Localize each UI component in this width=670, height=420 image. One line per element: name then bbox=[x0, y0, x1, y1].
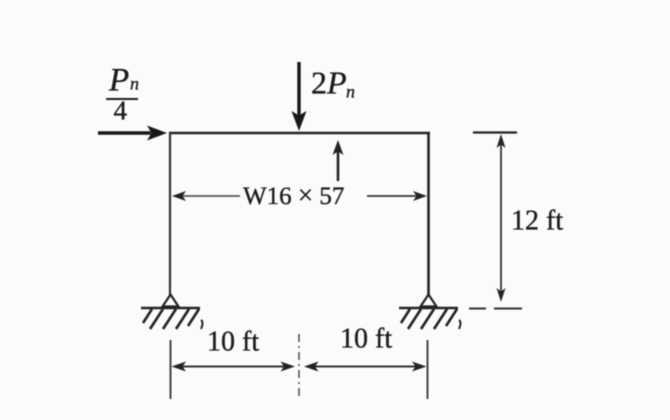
svg-text:2P: 2P bbox=[311, 65, 347, 101]
label Pn/4 (fraction) bbox=[106, 63, 139, 126]
svg-text:10 ft: 10 ft bbox=[340, 324, 392, 355]
ink mark bbox=[201, 320, 203, 329]
dimension label W16 x 57 with leader arrows bbox=[172, 180, 427, 210]
svg-text:n: n bbox=[130, 74, 139, 94]
arrowhead up bbox=[497, 134, 506, 148]
dimension 10 ft (left bay) bbox=[172, 327, 296, 372]
right column bbox=[427, 132, 430, 296]
arrowhead down bbox=[497, 288, 506, 302]
left pin support bbox=[141, 295, 203, 330]
force arrow Pn/4 (horizontal load at top left) bbox=[98, 126, 167, 141]
svg-text:W16 × 57: W16 × 57 bbox=[243, 180, 344, 210]
svg-text:12 ft: 12 ft bbox=[511, 206, 563, 237]
dimension 12 ft (right side) bbox=[469, 133, 563, 309]
extension line left (below left support) bbox=[170, 340, 172, 399]
svg-text:10 ft: 10 ft bbox=[207, 327, 259, 358]
svg-text:n: n bbox=[346, 82, 355, 102]
svg-text:P: P bbox=[108, 63, 129, 99]
ink mark bbox=[459, 320, 461, 329]
extension line center (dash-dot) bbox=[298, 334, 300, 399]
label 2Pn bbox=[311, 65, 355, 102]
bottom tick (dashed) bbox=[469, 308, 522, 310]
reaction arrow (upward arrow under beam) bbox=[333, 140, 344, 181]
force arrow 2Pn (vertical load on beam) bbox=[292, 62, 307, 131]
right pin support bbox=[399, 295, 461, 330]
leader arrow right bbox=[367, 195, 417, 197]
top tick bbox=[473, 131, 517, 133]
left column bbox=[169, 132, 171, 296]
dimension line bbox=[500, 142, 502, 294]
beam W16x57 (top member) bbox=[169, 132, 430, 135]
extension line right (below right support) bbox=[427, 340, 429, 399]
svg-text:4: 4 bbox=[114, 96, 128, 126]
leader arrow left bbox=[182, 195, 240, 197]
dimension 10 ft (right bay) bbox=[304, 324, 427, 372]
